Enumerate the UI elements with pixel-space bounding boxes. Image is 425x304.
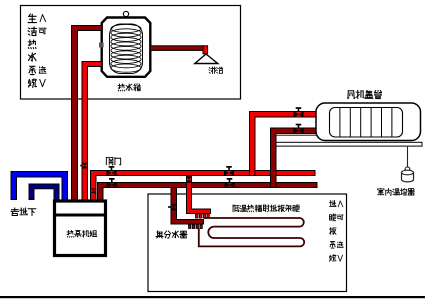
ground line bbox=[0, 296, 425, 298]
fan coil shelf bbox=[276, 142, 422, 146]
tank side connector stub bbox=[99, 43, 104, 48]
floor heating serpentine pipe bbox=[199, 218, 304, 246]
fan coil grille lines bbox=[340, 108, 392, 137]
valve on red header drop bbox=[91, 188, 97, 193]
heat pump unit box bbox=[55, 201, 106, 256]
red pipe tank return (L) bbox=[82, 62, 102, 202]
maroon branch to fan coil bbox=[271, 128, 318, 188]
label 室内温控器 bbox=[378, 188, 415, 195]
tank heating coil bbox=[110, 24, 143, 74]
navy pipe to ground bbox=[29, 184, 59, 201]
maroon manifold teeth bbox=[189, 225, 203, 229]
label 集分水器 bbox=[156, 231, 187, 238]
valve red header left bbox=[107, 166, 117, 176]
maroon pipe tank supply (L) bbox=[72, 26, 103, 202]
label floor panel system (vertical) bbox=[329, 200, 343, 261]
label 阀门 bbox=[106, 157, 120, 164]
label 低温热辐射地板采暖 bbox=[233, 205, 299, 212]
thermostat wire bbox=[407, 147, 409, 168]
label 淋浴 bbox=[209, 67, 223, 74]
label 风机盘管 bbox=[348, 90, 382, 98]
blue pipe to ground bbox=[11, 172, 68, 201]
label 热泵机组 bbox=[67, 230, 97, 237]
red manifold teeth bbox=[196, 214, 210, 218]
floor-heating boundary box bbox=[148, 194, 347, 292]
maroon manifold drop pipe bbox=[171, 188, 204, 225]
valve red header mid bbox=[224, 166, 234, 176]
valve maroon header mid bbox=[225, 178, 235, 188]
maroon pipe to shower bbox=[150, 46, 203, 51]
valve maroon fan-coil branch bbox=[294, 124, 304, 134]
label 去地下 bbox=[11, 208, 36, 216]
label tank 热水箱 bbox=[118, 84, 140, 91]
dhw system boundary box bbox=[21, 6, 241, 100]
fan coil unit body bbox=[316, 103, 421, 141]
red manifold drop pipe bbox=[187, 176, 211, 214]
red branch to fan coil bbox=[250, 112, 318, 176]
valve maroon drop bbox=[168, 204, 177, 210]
thermostat sensor bbox=[402, 167, 414, 182]
valve red drop bbox=[186, 176, 192, 182]
red supply header bbox=[91, 171, 316, 201]
maroon return header bbox=[98, 183, 318, 201]
red elbow to shower bbox=[203, 46, 208, 54]
valve red fan-coil branch bbox=[294, 107, 304, 117]
label DHW system (vertical) bbox=[28, 14, 46, 88]
support line under fan coil branch bbox=[276, 135, 317, 136]
hot water tank body bbox=[102, 11, 151, 76]
shower head symbol bbox=[195, 54, 218, 64]
valve on tank return riser bbox=[80, 163, 88, 169]
valve maroon header left bbox=[107, 178, 117, 188]
